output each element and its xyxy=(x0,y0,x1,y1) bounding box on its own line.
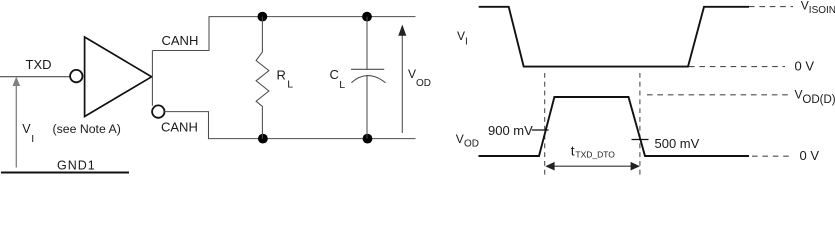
svg-text:OD: OD xyxy=(416,78,431,89)
svg-text:C: C xyxy=(330,67,339,82)
svg-text:V: V xyxy=(457,29,465,43)
svg-text:R: R xyxy=(277,68,286,83)
svg-text:TXD_DTO: TXD_DTO xyxy=(575,149,615,159)
svg-text:0 V: 0 V xyxy=(800,148,820,163)
svg-text:t: t xyxy=(571,143,575,158)
svg-text:V: V xyxy=(22,122,31,136)
svg-text:V: V xyxy=(795,88,803,102)
svg-text:GND1: GND1 xyxy=(57,159,96,173)
svg-text:CANH: CANH xyxy=(162,33,199,48)
svg-text:900 mV: 900 mV xyxy=(488,123,533,138)
svg-text:L: L xyxy=(287,79,293,91)
svg-text:I: I xyxy=(465,37,468,48)
svg-text:(see Note A): (see Note A) xyxy=(53,122,121,136)
svg-text:L: L xyxy=(339,79,345,91)
svg-text:500 mV: 500 mV xyxy=(655,136,700,151)
svg-text:TXD: TXD xyxy=(26,57,52,72)
svg-text:OD: OD xyxy=(464,139,479,150)
svg-text:V: V xyxy=(456,132,464,146)
svg-text:I: I xyxy=(31,133,34,145)
svg-text:V: V xyxy=(801,0,809,13)
svg-text:OD(D): OD(D) xyxy=(802,94,835,106)
svg-text:0 V: 0 V xyxy=(795,59,815,74)
svg-text:CANH: CANH xyxy=(161,120,198,135)
svg-text:ISOIN: ISOIN xyxy=(809,5,835,16)
svg-text:V: V xyxy=(408,67,416,81)
